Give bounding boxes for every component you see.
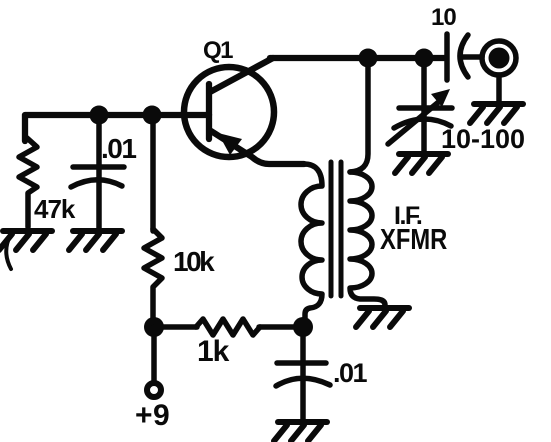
ground under C1 xyxy=(69,231,122,250)
svg-text:10k: 10k xyxy=(173,246,215,277)
junction dot: top rail / T1 xyxy=(359,49,378,68)
resistor R1 47k xyxy=(19,138,37,227)
junction dot: rail / C1 xyxy=(90,106,109,125)
capacitor C1 .01 xyxy=(73,164,124,170)
transistor Q1 collector lead xyxy=(210,58,273,92)
transistor Q1 base bar xyxy=(206,84,212,139)
wire: left base rail xyxy=(25,115,209,141)
wire: +9 lead xyxy=(151,327,157,381)
artifact arc left edge xyxy=(6,236,11,269)
ground under 47k xyxy=(0,231,52,250)
transformer T1 left winding xyxy=(301,164,322,324)
capacitor C2 .01 xyxy=(277,360,326,366)
ground under C4 xyxy=(395,154,448,173)
transistor Q1 emitter arrow xyxy=(218,133,242,155)
wire: C4 stem xyxy=(421,58,427,152)
wire: .01 cap branch xyxy=(96,115,102,229)
svg-text:1k: 1k xyxy=(197,335,230,368)
wire: T1 primary feed xyxy=(350,58,368,172)
svg-text:+9: +9 xyxy=(135,399,170,432)
svg-text:10: 10 xyxy=(431,4,456,31)
terminal +9 xyxy=(147,383,161,397)
capacitor C3 10 plates xyxy=(444,34,450,80)
ground under T1 xyxy=(356,308,409,327)
junction dot: bottom left node xyxy=(144,317,164,337)
ground under C2 xyxy=(274,422,327,441)
variable capacitor C4 arrow xyxy=(388,100,441,144)
variable capacitor C4 plates xyxy=(399,105,452,111)
transistor Q1 emitter lead xyxy=(211,131,304,164)
svg-text:10-100: 10-100 xyxy=(441,124,525,154)
resistor R2 10k xyxy=(144,229,162,322)
wire: bottom rail right xyxy=(259,324,303,330)
svg-text:Q1: Q1 xyxy=(203,37,233,64)
svg-text:XFMR: XFMR xyxy=(380,223,447,256)
junction dot: top rail / C4 xyxy=(415,49,434,68)
junction dot: bottom right node xyxy=(293,317,313,337)
connector J1 output xyxy=(482,41,516,75)
wire: top rail xyxy=(270,55,446,61)
svg-text:.01: .01 xyxy=(101,133,136,164)
svg-text:47k: 47k xyxy=(34,194,76,224)
wire: bottom rail left xyxy=(154,324,197,330)
transistor Q1 circle xyxy=(184,67,274,157)
transformer T1 right winding xyxy=(350,172,385,307)
transformer T1 core xyxy=(329,162,334,296)
resistor R3 1k xyxy=(196,319,260,335)
svg-text:.01: .01 xyxy=(333,358,368,388)
ground under J1 xyxy=(470,104,523,123)
wire: 10k top lead xyxy=(150,115,156,231)
wire: C2 stem xyxy=(300,327,306,420)
wire: J1 ground lead xyxy=(496,75,502,102)
junction dot: rail / 10k xyxy=(143,106,162,125)
wire: C3 to connector xyxy=(463,54,482,60)
